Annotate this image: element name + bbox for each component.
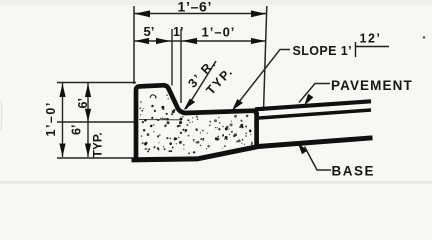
bottom edge scan band xyxy=(0,181,432,184)
dimension line 6"/6" vertical xyxy=(87,83,89,157)
pavement bottom line xyxy=(259,110,371,118)
svg-text:TYP.: TYP. xyxy=(91,132,105,157)
arrow 6" up xyxy=(85,84,91,98)
svg-text:PAVEMENT: PAVEMENT xyxy=(331,78,413,93)
arrow 1'-0" right xyxy=(251,38,266,44)
dimension line 1'-0" vertical xyxy=(62,83,64,157)
extension line mid left horizontal xyxy=(57,121,136,123)
extension line left (back of curb) xyxy=(133,6,135,84)
arrow 1'-0" down xyxy=(59,144,65,157)
leader 3" R xyxy=(186,61,216,109)
top edge scan band xyxy=(0,0,432,5)
arrow SLOPE xyxy=(232,99,243,111)
dimension line row2 xyxy=(134,40,266,42)
arrow 1'-6" left xyxy=(135,10,151,17)
leader PAVEMENT xyxy=(299,84,330,103)
svg-text:1’: 1’ xyxy=(173,25,183,39)
left edge scan artifact xyxy=(0,100,3,130)
pavement top line xyxy=(255,101,371,109)
extension line inner 1in xyxy=(180,29,182,103)
arrow 6" bottom down xyxy=(85,144,91,157)
svg-text:SLOPE 1’: SLOPE 1’ xyxy=(293,44,352,58)
head curl mark xyxy=(150,95,156,99)
arrow 6" mid down xyxy=(85,109,91,122)
svg-text:5’: 5’ xyxy=(144,24,155,39)
leader BASE xyxy=(305,147,332,171)
svg-text:1’–6’: 1’–6’ xyxy=(178,0,213,15)
svg-text:1’–0’: 1’–0’ xyxy=(44,101,58,136)
arrow PAVEMENT xyxy=(304,94,313,106)
dimension line 1'-6" xyxy=(134,13,267,15)
arrow 1'-0" up xyxy=(59,84,65,98)
extension line bottom left horizontal xyxy=(57,157,132,159)
extension line right (edge of pavement) xyxy=(264,6,267,111)
concrete stipple xyxy=(140,95,254,155)
slope ratio symbol xyxy=(356,42,390,57)
svg-text:1’–0’: 1’–0’ xyxy=(202,25,236,40)
svg-text:6’: 6’ xyxy=(76,98,90,108)
extension line inner 5in xyxy=(171,29,173,86)
arrow 1'-6" right xyxy=(251,10,266,17)
arrow 5" right xyxy=(156,38,171,44)
arrow 3" R xyxy=(184,99,196,111)
arrow 5" left xyxy=(135,38,150,44)
extension line top left horizontal xyxy=(57,82,136,84)
svg-text:BASE: BASE xyxy=(332,164,376,179)
arrow 1'-0" left xyxy=(182,38,197,44)
curb outline xyxy=(136,85,257,159)
svg-text:12’: 12’ xyxy=(360,32,382,46)
curb/base bottom line xyxy=(134,138,370,160)
svg-text:6’: 6’ xyxy=(70,125,84,135)
leader SLOPE xyxy=(234,50,291,110)
gutter joint thin line xyxy=(139,119,181,121)
speck dot xyxy=(423,36,425,38)
arrow BASE xyxy=(298,142,308,154)
